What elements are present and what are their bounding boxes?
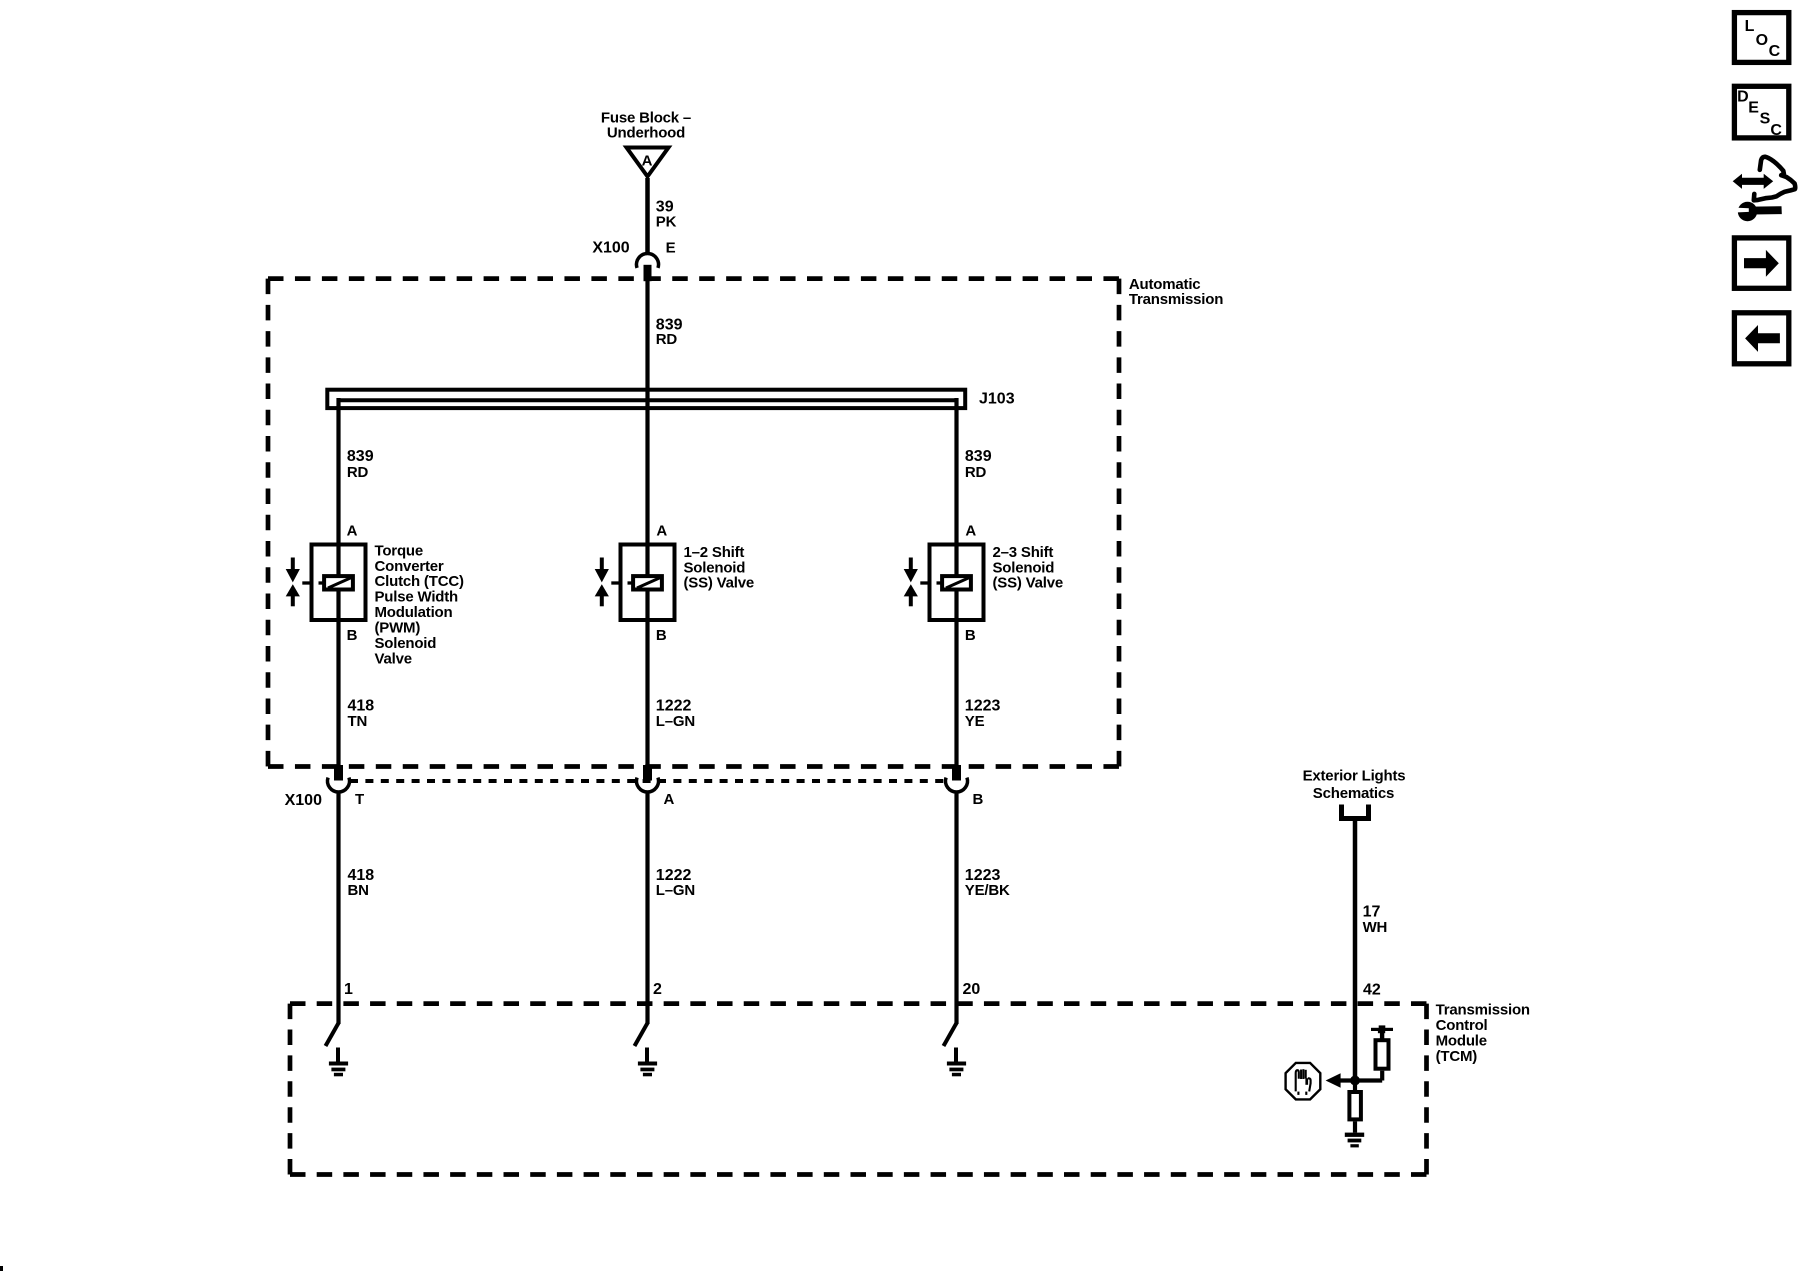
svg-text:Underhood: Underhood (607, 125, 685, 142)
svg-text:BN: BN (348, 882, 369, 899)
svg-text:839: 839 (965, 448, 992, 465)
svg-text:B: B (973, 791, 984, 808)
svg-text:A: A (656, 522, 667, 539)
svg-text:E: E (666, 240, 676, 257)
svg-text:E: E (1748, 99, 1759, 116)
svg-text:C: C (1769, 43, 1781, 60)
svg-text:RD: RD (656, 331, 678, 348)
svg-text:X100: X100 (592, 239, 629, 256)
svg-text:1: 1 (344, 981, 353, 998)
svg-text:L–GN: L–GN (656, 882, 695, 899)
svg-text:2: 2 (653, 981, 662, 998)
svg-text:Transmission: Transmission (1129, 291, 1223, 308)
svg-text:A: A (965, 522, 976, 539)
svg-text:(TCM): (TCM) (1436, 1048, 1478, 1065)
svg-text:Exterior Lights: Exterior Lights (1303, 768, 1406, 785)
svg-text:(SS) Valve: (SS) Valve (993, 575, 1064, 592)
svg-text:D: D (1737, 88, 1749, 105)
svg-text:TN: TN (348, 713, 368, 730)
svg-text:A: A (642, 152, 653, 169)
svg-text:L: L (1745, 18, 1755, 35)
svg-text:O: O (1756, 32, 1768, 49)
svg-text:Torque: Torque (375, 542, 424, 559)
svg-text:YE: YE (965, 713, 985, 730)
svg-text:B: B (656, 627, 667, 644)
svg-text:RD: RD (347, 464, 369, 481)
svg-text:C: C (1770, 122, 1782, 139)
svg-text:839: 839 (347, 448, 374, 465)
svg-text:YE/BK: YE/BK (965, 882, 1010, 899)
svg-text:L–GN: L–GN (656, 713, 695, 730)
svg-text:Modulation: Modulation (375, 604, 453, 621)
svg-text:Solenoid: Solenoid (375, 635, 437, 652)
svg-text:A: A (347, 522, 358, 539)
svg-text:42: 42 (1363, 982, 1381, 999)
svg-text:(SS) Valve: (SS) Valve (684, 575, 755, 592)
svg-text:X100: X100 (285, 792, 322, 809)
svg-text:T: T (355, 791, 364, 808)
svg-text:B: B (347, 627, 358, 644)
svg-text:S: S (1760, 111, 1771, 128)
svg-text:Schematics: Schematics (1313, 785, 1394, 802)
svg-text:J103: J103 (979, 391, 1015, 408)
svg-text:A: A (664, 791, 675, 808)
svg-text:B: B (965, 627, 976, 644)
svg-text:20: 20 (963, 981, 981, 998)
svg-text:Valve: Valve (375, 651, 412, 668)
svg-text:WH: WH (1363, 919, 1388, 936)
svg-text:PK: PK (656, 213, 677, 230)
svg-text:Clutch (TCC): Clutch (TCC) (375, 573, 464, 590)
svg-text:RD: RD (965, 464, 987, 481)
